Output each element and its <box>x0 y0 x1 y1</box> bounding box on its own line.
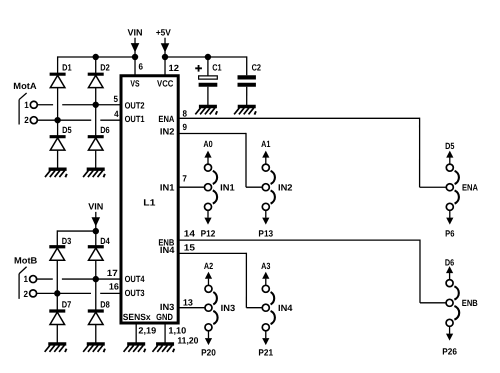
wire to pin 16 OUT3 <box>57 292 91 294</box>
node VIN MotB junction <box>93 228 99 234</box>
node +5V junction <box>162 54 168 60</box>
ground <box>152 342 174 352</box>
wire pin6 stub <box>134 57 136 76</box>
svg-text:OUT4: OUT4 <box>125 274 145 284</box>
ground <box>83 342 105 352</box>
svg-text:1: 1 <box>23 274 28 284</box>
svg-text:13: 13 <box>183 298 193 308</box>
wire pin 17 OUT4 <box>96 278 121 280</box>
svg-text:P20: P20 <box>201 347 216 357</box>
svg-text:15: 15 <box>184 243 195 253</box>
ground <box>234 105 256 115</box>
wire GND pin stub <box>164 323 166 343</box>
svg-text:D5: D5 <box>445 141 454 151</box>
svg-text:ENB: ENB <box>462 298 478 308</box>
wire +5V rail to C1/C2 <box>165 56 247 58</box>
svg-text:IN4: IN4 <box>278 303 293 313</box>
wire D5 to ground <box>57 151 59 168</box>
ground <box>195 105 217 115</box>
wire D3 to D7 <box>56 260 58 311</box>
svg-text:1,10: 1,10 <box>168 325 186 335</box>
svg-text:C1: C1 <box>212 63 221 73</box>
ground <box>83 167 105 177</box>
svg-text:5: 5 <box>114 94 119 104</box>
svg-text:D6: D6 <box>445 257 454 267</box>
wire D4 top drop <box>95 231 97 247</box>
diode D2 <box>88 63 110 88</box>
svg-text:VS: VS <box>130 78 139 88</box>
svg-text:D2: D2 <box>100 63 110 73</box>
svg-text:17: 17 <box>107 268 118 278</box>
wire C2 top drop <box>246 56 248 75</box>
svg-text:A0: A0 <box>203 139 212 149</box>
plus sign of C1 <box>195 65 202 72</box>
svg-text:D1: D1 <box>62 63 72 73</box>
wire pin9 IN2 to jumper <box>178 132 246 134</box>
svg-text:D7: D7 <box>62 299 72 309</box>
diode D4 <box>88 236 110 260</box>
wire D3 top drop <box>56 230 58 246</box>
connector MotB <box>14 256 38 300</box>
jumper IN1 <box>201 139 235 239</box>
svg-text:SENSx: SENSx <box>123 312 151 322</box>
wire D2 top drop <box>95 57 97 74</box>
svg-text:P13: P13 <box>258 229 273 239</box>
svg-text:8: 8 <box>183 108 188 118</box>
svg-text:VIN: VIN <box>127 27 142 37</box>
svg-text:2,19: 2,19 <box>138 325 156 335</box>
wire pin12 stub <box>164 57 166 76</box>
ground <box>45 342 67 352</box>
wire to pin 4 OUT1 <box>58 119 92 121</box>
svg-text:OUT3: OUT3 <box>125 288 145 298</box>
svg-text:IN1: IN1 <box>220 182 235 192</box>
svg-text:P26: P26 <box>442 346 457 356</box>
node OUT1 junction <box>54 117 60 123</box>
svg-text:IN4: IN4 <box>160 245 175 255</box>
svg-text:4: 4 <box>114 109 119 119</box>
wire pin13 IN3 to jumper <box>178 307 205 309</box>
wire D8 to ground <box>95 324 97 342</box>
wire D4 to D8 <box>95 260 97 311</box>
svg-text:2: 2 <box>24 115 29 125</box>
power flag VIN <box>88 201 103 231</box>
svg-text:7: 7 <box>182 174 187 184</box>
svg-text:16: 16 <box>109 281 119 291</box>
connector MotA <box>13 81 37 125</box>
jumper IN4 <box>258 261 292 357</box>
ground <box>124 342 146 352</box>
svg-text:+5V: +5V <box>156 27 171 37</box>
wire pin15 IN4 to jumper <box>178 252 246 254</box>
wire SENSx pin stub <box>135 323 137 343</box>
svg-text:IN3: IN3 <box>221 303 236 313</box>
node D2 rail junction <box>93 54 99 60</box>
svg-text:IN2: IN2 <box>160 126 175 136</box>
svg-text:12: 12 <box>169 63 180 73</box>
node VIN junction <box>132 54 138 60</box>
node C1 junction <box>205 54 211 60</box>
svg-text:A1: A1 <box>261 139 270 149</box>
svg-text:9: 9 <box>183 122 188 132</box>
diode D1 <box>50 63 72 88</box>
svg-text:D6: D6 <box>100 125 110 135</box>
svg-text:2: 2 <box>23 289 28 299</box>
svg-text:D3: D3 <box>62 236 72 246</box>
svg-text:1: 1 <box>24 100 29 110</box>
wire D6 to ground <box>95 151 97 168</box>
node OUT3 junction <box>54 290 60 296</box>
svg-text:14: 14 <box>184 229 195 239</box>
wire VIN rail to D1/D2 <box>58 56 135 58</box>
svg-text:ENA: ENA <box>462 182 478 192</box>
diode D3 <box>49 236 71 260</box>
jumper IN2 <box>258 139 292 239</box>
wire pin 5 OUT2 <box>96 104 121 106</box>
wire D1 to D5 <box>57 88 59 137</box>
capacitor C1 <box>199 57 222 105</box>
svg-text:MotB: MotB <box>14 256 38 266</box>
svg-text:OUT2: OUT2 <box>125 100 145 110</box>
wire MotB pin2 to D3 column <box>36 292 57 294</box>
node OUT4 junction <box>93 276 99 282</box>
jumper ENA <box>445 141 478 239</box>
wire pin14 ENB to jumper <box>178 239 420 241</box>
capacitor C2 <box>238 63 262 105</box>
ground <box>45 167 67 177</box>
svg-text:VIN: VIN <box>88 201 103 211</box>
svg-text:D8: D8 <box>100 299 110 309</box>
wire MotB rail <box>57 230 96 232</box>
svg-text:IN1: IN1 <box>160 182 175 192</box>
wire D1 top drop <box>57 56 59 74</box>
svg-text:D5: D5 <box>62 125 72 135</box>
jumper ENB <box>442 257 478 356</box>
node OUT2 junction <box>93 102 99 108</box>
wire D7 to ground <box>56 324 58 342</box>
jumper IN3 <box>201 261 235 357</box>
op-amp U1 IC L1 body <box>121 76 178 323</box>
diode D5 <box>50 125 72 150</box>
power flag VIN <box>127 27 142 57</box>
svg-text:A2: A2 <box>204 261 213 271</box>
diode D6 <box>88 125 110 150</box>
svg-text:OUT1: OUT1 <box>125 114 145 124</box>
wire pin8 ENA to jumper <box>178 117 420 119</box>
svg-text:IN2: IN2 <box>278 182 293 192</box>
wire MotA pin1 to D2 column <box>37 104 53 106</box>
svg-text:A3: A3 <box>261 261 270 271</box>
svg-text:IN3: IN3 <box>160 302 175 312</box>
svg-text:P21: P21 <box>258 347 273 357</box>
svg-text:D4: D4 <box>100 236 110 246</box>
svg-text:L1: L1 <box>143 197 155 207</box>
wire MotB pin1 to D4 column <box>36 278 52 280</box>
wire D2 to D6 <box>95 88 97 137</box>
svg-text:GND: GND <box>156 312 173 322</box>
svg-text:C2: C2 <box>252 63 261 73</box>
power flag +5V <box>156 27 171 57</box>
svg-text:MotA: MotA <box>13 81 37 91</box>
wire pin7 IN1 to jumper <box>178 186 205 188</box>
svg-text:11,20: 11,20 <box>177 335 198 345</box>
svg-text:VCC: VCC <box>157 78 174 88</box>
diode D8 <box>88 299 110 324</box>
diode D7 <box>49 299 71 324</box>
svg-text:ENA: ENA <box>158 114 174 124</box>
wire MotA pin2 to D1 column <box>37 119 57 121</box>
svg-text:6: 6 <box>139 61 144 71</box>
svg-text:P12: P12 <box>201 229 216 239</box>
svg-text:P6: P6 <box>445 229 454 239</box>
